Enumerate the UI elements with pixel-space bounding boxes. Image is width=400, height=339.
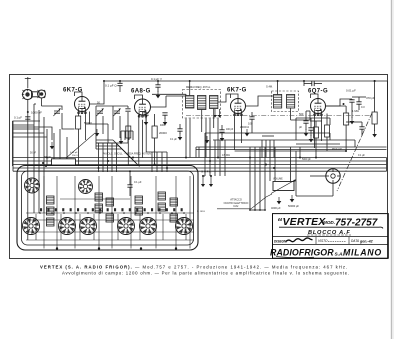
wire: stub bbox=[34, 103, 36, 105]
wire: T1 drop x186 bbox=[185, 119, 187, 158]
wire: col2 x129 bbox=[128, 131, 130, 140]
wire r7 top bbox=[315, 121, 317, 127]
node gufa1 bbox=[202, 175, 204, 177]
svg-text:VISTO: VISTO bbox=[318, 239, 328, 243]
wire c14 top bbox=[305, 111, 307, 121]
tuning unit wheel b2 bbox=[59, 218, 76, 235]
wire: bus jog 1 bbox=[116, 143, 134, 161]
wire: box col x94 bbox=[93, 214, 95, 240]
wire: col3 x266 bbox=[265, 140, 267, 158]
node bus x250 bbox=[249, 157, 251, 159]
node bus x47 bbox=[46, 157, 48, 159]
wire: col3 tie bbox=[262, 135, 274, 137]
svg-text:DISEGN.: DISEGN. bbox=[274, 239, 287, 243]
wire r6 top bbox=[374, 81, 376, 112]
svg-text:pF: pF bbox=[299, 125, 302, 129]
node bus x60 bbox=[59, 164, 61, 166]
wire: box upper rail bbox=[60, 198, 130, 200]
svg-text:1000 pF: 1000 pF bbox=[31, 111, 42, 115]
wire: jog bbox=[329, 133, 331, 140]
wire: prebus h0 bbox=[96, 139, 113, 141]
wire: col2 x121 bbox=[120, 131, 122, 140]
capacitor bbox=[177, 129, 182, 131]
wire: c6 stub bbox=[119, 81, 121, 83]
wire: grid cap V1 bbox=[75, 92, 83, 97]
capacitor bbox=[125, 109, 130, 111]
wire: trimmer down bbox=[62, 113, 75, 129]
wire: mid link 2 bbox=[213, 139, 355, 141]
wire: R3 bottom bbox=[154, 138, 156, 166]
svg-text:1 MΩ: 1 MΩ bbox=[352, 109, 359, 113]
tuning unit wheel b3 bbox=[80, 218, 97, 235]
resistor bbox=[314, 127, 319, 138]
wire: column x103 bbox=[102, 143, 104, 172]
coil stack c1 bbox=[135, 196, 143, 204]
wire: pot out bbox=[295, 151, 297, 196]
wire bypass 165 bbox=[164, 115, 166, 119]
wire: box column x75 bbox=[74, 176, 76, 249]
wire: column x112 bbox=[111, 143, 113, 172]
wire: box col x118 bbox=[117, 214, 119, 240]
node: box bottom x141 bbox=[140, 247, 142, 249]
tube V1 6K7-G bbox=[75, 97, 90, 115]
svg-text:6A8-G: 6A8-G bbox=[131, 89, 151, 95]
wire: bus left tie bbox=[12, 121, 14, 171]
wire: box col x80 bbox=[79, 214, 81, 240]
wire: left jog tie bbox=[95, 128, 97, 149]
wire: T1 top stub bbox=[185, 94, 187, 95]
wire: T2 sec down bbox=[290, 108, 292, 120]
wire: V3 grid cap bbox=[231, 94, 239, 99]
node rail x158 bbox=[157, 80, 159, 82]
wire: jog2 bbox=[354, 140, 356, 147]
wire: column x250 bbox=[249, 147, 251, 210]
node bus x218 bbox=[217, 157, 219, 159]
wire r5 top bbox=[345, 106, 347, 113]
wire: r2b down bbox=[127, 138, 129, 166]
wire: AVC step bbox=[13, 127, 53, 140]
svg-text:100: 100 bbox=[248, 122, 253, 126]
tuning unit wheel 2 bbox=[79, 180, 93, 194]
wire: box column x190 bbox=[189, 176, 191, 249]
wire: T2 to V4 bbox=[291, 111, 310, 120]
capacitor bbox=[127, 185, 132, 187]
wire: mid link 3 bbox=[196, 146, 387, 148]
node rail right bbox=[374, 80, 376, 82]
wire c13 top bbox=[361, 122, 363, 127]
svg-text:5000 pF: 5000 pF bbox=[302, 158, 311, 161]
wire: c5 stub bbox=[127, 106, 129, 108]
wire: AVC line bbox=[13, 120, 41, 122]
wire: column mid x215 bbox=[214, 140, 216, 176]
wire: T1 drop x218 bbox=[217, 119, 219, 158]
capacitor bbox=[308, 128, 313, 130]
antenna coil secondary L2 bbox=[32, 90, 46, 98]
wire r7 tie bbox=[310, 120, 322, 122]
wire: T1 ter down bbox=[213, 109, 215, 129]
wire: step y125 bbox=[13, 124, 35, 126]
wire: V1 pin down bbox=[84, 112, 86, 141]
wire: col3b bbox=[299, 147, 301, 158]
wire c18 top bbox=[310, 118, 312, 128]
wire: box column x131 bbox=[130, 176, 132, 249]
wire: jog3 bbox=[195, 147, 197, 158]
coil stack b1 bbox=[95, 193, 103, 201]
node: terminal x112 bbox=[111, 212, 113, 214]
wire: column x60 bbox=[59, 129, 61, 166]
svg-text:757-2757: 757-2757 bbox=[335, 217, 378, 228]
wire: jog3b bbox=[198, 147, 200, 158]
wire: column x44 bbox=[43, 117, 45, 213]
wire gufa link bbox=[203, 175, 205, 177]
coil stack a1 bbox=[47, 196, 55, 204]
coil T2 primary bbox=[274, 95, 282, 109]
node: terminal x184 bbox=[183, 212, 185, 214]
ground right bbox=[350, 117, 355, 124]
coil T1 primary bbox=[186, 96, 194, 109]
wire: bus line 3 bbox=[13, 164, 387, 166]
wire: V3 plate to T2 bbox=[246, 96, 274, 106]
svg-text:4000: 4000 bbox=[160, 124, 166, 127]
ground c18 bbox=[309, 135, 314, 142]
wire: osc link down bbox=[96, 142, 128, 144]
wire c20 top bbox=[129, 171, 131, 185]
wire: c7 stub bbox=[157, 81, 159, 85]
coil stack d1 bbox=[158, 192, 166, 200]
ground mid3 bbox=[205, 136, 210, 143]
wire: col2 x133 bbox=[132, 131, 134, 140]
coil stack d4 bbox=[170, 214, 178, 222]
capacitor bbox=[25, 117, 30, 119]
svg-text:0.1 µF: 0.1 µF bbox=[134, 180, 142, 184]
tube V3 6K7-G bbox=[231, 99, 246, 117]
wire: osc vertical bbox=[112, 106, 114, 130]
wire: column mid x205 bbox=[204, 133, 206, 176]
wire c13 drop bbox=[361, 129, 363, 136]
wire: V4 pin down bbox=[314, 114, 316, 149]
wire: c7 drop bbox=[157, 87, 159, 92]
wire: column x107.5 bbox=[107, 143, 109, 172]
tuning unit wheel b5 bbox=[140, 218, 157, 235]
wire r6 bottom bbox=[374, 124, 376, 131]
svg-text:6K7-G: 6K7-G bbox=[227, 88, 247, 94]
wire: bus jog 2 bbox=[119, 146, 137, 164]
wire: bus right tie bbox=[386, 158, 388, 172]
wire: V2 plate to IF1 bbox=[151, 96, 167, 107]
capacitor bbox=[155, 85, 160, 87]
wire: V2 plate into T1 bbox=[166, 95, 185, 97]
wire: V1 cathode to R1 bbox=[78, 112, 80, 117]
node low x255 bbox=[254, 209, 256, 211]
wire: osc section bbox=[95, 106, 97, 128]
node: box bottom x176 bbox=[175, 247, 177, 249]
wire: antenna to trimmer bbox=[42, 106, 63, 110]
ground c16 bbox=[178, 133, 183, 140]
node rail x277.6 bbox=[277, 80, 279, 82]
coil T1 secondary bbox=[198, 96, 206, 110]
wire r7 down bbox=[315, 138, 317, 158]
node: box bottom x99 bbox=[98, 247, 100, 249]
wire: V2 grid cap bbox=[135, 95, 143, 99]
coil stack b4 bbox=[106, 214, 114, 222]
wire: V3 pin down2 bbox=[240, 114, 242, 144]
capacitor bbox=[219, 130, 224, 132]
wire: box col x36 bbox=[35, 214, 37, 240]
node: terminal x136 bbox=[135, 212, 137, 214]
wire c15 rail bbox=[352, 96, 366, 98]
node bus x98.5 bbox=[98, 167, 100, 169]
wire: low link2 bbox=[296, 195, 333, 197]
node bus x133 bbox=[132, 157, 134, 159]
wire: osc top link bbox=[96, 105, 128, 107]
wire: bus line 4 bbox=[13, 167, 387, 169]
terminal arrow 2 bbox=[209, 176, 213, 187]
wire: right rail drop bbox=[387, 81, 389, 110]
wire: column x34 bbox=[33, 104, 35, 213]
wire: V2 pin2 down bbox=[145, 115, 147, 153]
terminal strip row bbox=[40, 208, 183, 211]
node bus x108 bbox=[107, 160, 109, 162]
svg-text:0.1 µF Ω: 0.1 µF Ω bbox=[105, 84, 117, 88]
terminal arrow 4 bbox=[218, 109, 222, 118]
wire: col3 x262 bbox=[261, 140, 263, 158]
title block divider 2 bbox=[273, 243, 389, 245]
wire: bus line 2 bbox=[13, 160, 387, 162]
trimmer capacitor bbox=[53, 108, 60, 116]
wire: V4 grid cap bbox=[311, 94, 319, 99]
underline of title bbox=[279, 227, 383, 228]
svg-text:AVVOLG. OSCILL. – MEDIA FREQ.: AVVOLG. OSCILL. – MEDIA FREQ. 467 kc/s. bbox=[103, 153, 152, 156]
approval row cells bbox=[315, 237, 317, 245]
wire c12 drop bbox=[351, 102, 353, 118]
terminal arrow 1 bbox=[201, 176, 205, 187]
svg-text:100 pF: 100 pF bbox=[226, 129, 234, 131]
node rail x374.6 bbox=[374, 80, 376, 82]
node: V1 plate bbox=[89, 103, 91, 105]
wire: c5 down bbox=[127, 112, 129, 143]
wire: step y129 bbox=[13, 128, 40, 130]
tube V2 6A8-G bbox=[135, 99, 151, 118]
wire: osc section 2 bbox=[102, 116, 104, 134]
node low x265 bbox=[264, 209, 266, 211]
title block divider 1 bbox=[273, 236, 389, 238]
wire: column x275 bbox=[274, 147, 276, 181]
wire: mid link 1 bbox=[205, 132, 330, 134]
wire: antenna lead down bbox=[27, 100, 29, 240]
capacitor bbox=[249, 117, 254, 119]
node T1 bbox=[165, 95, 167, 97]
signature scribble bbox=[286, 238, 313, 242]
svg-text:0.1 µF ▽: 0.1 µF ▽ bbox=[151, 77, 163, 81]
capacitor bbox=[162, 113, 167, 115]
wire: box column x57 bbox=[56, 176, 58, 249]
wire: socket left bbox=[310, 175, 326, 177]
node: box bottom x57 bbox=[56, 247, 58, 249]
node bus x210 bbox=[209, 160, 211, 162]
wire: T1 drop x206 bbox=[205, 119, 207, 158]
svg-text:VOLUME: VOLUME bbox=[273, 179, 283, 181]
node low x260 bbox=[259, 209, 261, 211]
svg-text:VERTEX (S. A. RADIO FRIGOR). —: VERTEX (S. A. RADIO FRIGOR). — Mod.757 e… bbox=[40, 264, 348, 269]
node: terminal x148 bbox=[147, 212, 149, 214]
svg-text:RADIOFRIGOR: RADIOFRIGOR bbox=[270, 247, 334, 257]
svg-text:“VERTEX: “VERTEX bbox=[277, 216, 326, 228]
wire: link under v1 bbox=[86, 123, 108, 125]
wire r5 bottom bbox=[345, 125, 347, 151]
capacitor bbox=[359, 127, 364, 129]
ground osc bbox=[95, 129, 100, 136]
coil stack a3 bbox=[47, 218, 55, 226]
svg-text:MILANO: MILANO bbox=[343, 247, 382, 257]
svg-text:0.01 µF: 0.01 µF bbox=[346, 89, 356, 93]
ground far right bbox=[372, 130, 377, 137]
wire: bus jog 3 bbox=[122, 149, 140, 167]
wire: T1 pri top bbox=[189, 81, 191, 96]
node bus a bbox=[42, 162, 44, 164]
node: terminal x76 bbox=[75, 212, 77, 214]
wire: column x167 bbox=[166, 152, 168, 172]
wire: T2 top bbox=[277, 81, 279, 95]
wire: step y133 bbox=[13, 132, 45, 134]
wire: column x47 bbox=[46, 129, 48, 166]
resistor bbox=[325, 125, 330, 137]
antenna coupling coil L1 bbox=[22, 89, 33, 100]
wire: column mid x210 bbox=[209, 140, 211, 176]
svg-text:50000 µF: 50000 µF bbox=[288, 204, 299, 208]
wire: mid link 3b bbox=[196, 149, 387, 151]
magic eye connector socket bbox=[326, 169, 340, 183]
svg-text:0.5 MΩ: 0.5 MΩ bbox=[222, 154, 230, 157]
wire: osc vertical2 bbox=[119, 116, 121, 138]
block boundary (dash-dot horizontal) bbox=[186, 115, 371, 117]
IF transformer T1 (dashed enclosure) bbox=[183, 90, 221, 119]
node bus x266 bbox=[265, 164, 267, 166]
node rail x189.7 bbox=[189, 80, 191, 82]
node bus x130 bbox=[129, 170, 131, 172]
wire c14 link bbox=[306, 110, 310, 112]
wire: box column x156 bbox=[155, 176, 157, 249]
node: terminal x52 bbox=[51, 212, 53, 214]
title block frame bbox=[273, 214, 389, 259]
wire: column mid x225 bbox=[224, 140, 226, 176]
wire: box column x99 bbox=[98, 176, 100, 249]
svg-text:S.4M.: S.4M. bbox=[266, 85, 273, 89]
ground near V1 bbox=[50, 142, 55, 149]
wire: column x67 bbox=[66, 137, 68, 166]
svg-text:0.1 µF: 0.1 µF bbox=[170, 138, 177, 141]
wire: T1 to V3 grid bbox=[218, 94, 231, 102]
wire link r5-c13 bbox=[346, 121, 362, 123]
wire: box col x61 bbox=[60, 214, 62, 240]
wire: box bottom rail bbox=[26, 239, 194, 241]
wire: V2 pin1 down bbox=[138, 115, 140, 167]
svg-text:Avvolgimento di campo: 1200 oh: Avvolgimento di campo: 1200 ohm. — Per l… bbox=[62, 270, 350, 275]
wire: T1 drop x190 bbox=[189, 119, 191, 158]
tuning unit wheel b1 bbox=[23, 218, 40, 235]
node bus x167 bbox=[166, 167, 168, 169]
wire: column x116.5 bbox=[116, 143, 118, 172]
node bus x316 bbox=[315, 157, 317, 159]
node: terminal x124 bbox=[123, 212, 125, 214]
tube V4 6Q7-G bbox=[311, 99, 326, 117]
wire c17 top bbox=[221, 125, 223, 130]
wire: socket down bbox=[332, 183, 334, 196]
wire: bus line 1 bbox=[13, 157, 387, 159]
node bus b bbox=[45, 165, 47, 167]
wire: low link bbox=[250, 209, 265, 211]
ground mid2 bbox=[245, 129, 250, 136]
svg-text:MOD.: MOD. bbox=[323, 220, 335, 225]
wire c9 drop bbox=[251, 119, 253, 133]
wire: c6 stub2 bbox=[119, 86, 121, 92]
wire: pot feed bbox=[290, 147, 292, 181]
antenna terminal bbox=[25, 77, 31, 88]
wire: box column x112 bbox=[111, 176, 113, 249]
wire c9 stub bbox=[251, 112, 253, 117]
svg-text:4000 µF: 4000 µF bbox=[271, 206, 281, 210]
resistor bbox=[152, 126, 157, 138]
resistor R8 (on bus) bbox=[52, 159, 76, 165]
wire: V2 cathode down bbox=[142, 120, 144, 158]
node bus x346 bbox=[345, 150, 347, 152]
capacitor bbox=[356, 102, 361, 104]
wire: box col x163 bbox=[162, 214, 164, 240]
ground bbox=[290, 195, 295, 202]
wire: col2 x125 bbox=[124, 131, 126, 140]
resistor bbox=[126, 126, 131, 138]
wire: V1 plate to rail bbox=[90, 81, 105, 104]
node rail x120 bbox=[119, 80, 121, 82]
node: antenna / C junction bbox=[27, 111, 29, 113]
schematic border frame bbox=[10, 75, 388, 259]
wire: box rail y220 bbox=[26, 219, 194, 221]
wire c15 top bbox=[358, 97, 360, 102]
svg-text:0.3: 0.3 bbox=[361, 105, 365, 109]
wire: R3 top bbox=[154, 114, 156, 126]
svg-text:470 pF: 470 pF bbox=[366, 96, 375, 100]
wire: prebus h1 bbox=[96, 142, 116, 144]
volume potentiometer bbox=[271, 180, 296, 194]
wire: T1 sec down bbox=[201, 110, 203, 133]
wire: column x265 bbox=[264, 147, 266, 210]
wire: column x260 bbox=[259, 147, 261, 210]
svg-text:0.1 µF: 0.1 µF bbox=[358, 154, 365, 157]
node: terminal x172 bbox=[171, 212, 173, 214]
wire: left vertical feed bbox=[12, 121, 14, 166]
ground bypass 146 bbox=[144, 118, 149, 125]
node: terminal x88 bbox=[87, 212, 89, 214]
wire c16 drop bbox=[179, 131, 181, 134]
wire c11 drop bbox=[303, 81, 305, 86]
svg-text:PICK-UP: PICK-UP bbox=[332, 148, 342, 151]
wire: column x255 bbox=[254, 147, 256, 210]
wire: column mid x220 bbox=[219, 140, 221, 176]
wire: v2 to T1 top bbox=[152, 93, 186, 95]
wire: mid link 4 bbox=[235, 150, 347, 152]
coil stack d2 bbox=[158, 203, 166, 211]
node: terminal x64 bbox=[63, 212, 65, 214]
tuning unit wheel b6 bbox=[176, 218, 193, 235]
leader diagonal bbox=[251, 194, 272, 209]
svg-text:20000: 20000 bbox=[159, 131, 167, 135]
svg-text:DATA: DATA bbox=[351, 239, 359, 243]
capacitor bbox=[117, 83, 122, 85]
wire c14 drop bbox=[305, 123, 307, 130]
ground c14 bbox=[304, 129, 309, 136]
wire: box column x44 bbox=[43, 176, 45, 249]
capacitor bbox=[303, 121, 308, 123]
coil stack a2 bbox=[47, 207, 55, 215]
